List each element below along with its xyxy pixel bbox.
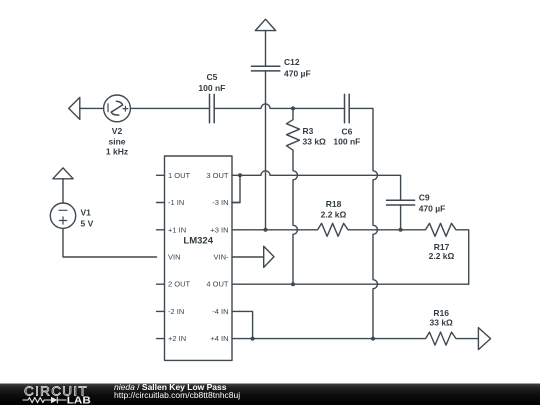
svg-text:C6: C6: [341, 126, 352, 136]
wire C9 bottom to +3IN row: [400, 205, 402, 230]
svg-text:R18: R18: [326, 199, 342, 209]
wire flag to V2: [80, 107, 104, 109]
logo diode triangle: [51, 397, 57, 404]
flag F4 (right, VIN-): [264, 246, 274, 267]
node dot R3/4OUT: [291, 282, 295, 286]
flag F5 (right, output): [478, 328, 490, 350]
node dot C6line/+4IN: [371, 337, 375, 341]
svg-text:100 nF: 100 nF: [198, 83, 225, 93]
wire +4IN row with R16: [240, 332, 478, 345]
svg-text:+1 IN: +1 IN: [168, 225, 186, 234]
resistor R17: [401, 223, 469, 284]
svg-text:3 OUT: 3 OUT: [206, 171, 229, 180]
wire C12 down to +3IN row dot: [265, 71, 267, 230]
svg-text:4 OUT: 4 OUT: [206, 280, 229, 289]
svg-text:V1: V1: [81, 207, 92, 217]
svg-text:-2 IN: -2 IN: [168, 307, 184, 316]
capacitor C5: [210, 94, 215, 123]
svg-text:http://circuitlab.com/cb8tt8tn: http://circuitlab.com/cb8tt8tnhc8uj: [114, 390, 240, 400]
flag F1 (up, top of C12): [255, 19, 275, 30]
svg-text:-3 IN: -3 IN: [212, 198, 228, 207]
node dot rail/R3 top: [291, 106, 295, 110]
svg-text:V2: V2: [112, 126, 123, 136]
source V2: [104, 95, 131, 122]
svg-text:2.2 kΩ: 2.2 kΩ: [321, 210, 347, 220]
IC left pin stubs: [157, 175, 165, 338]
capacitor C9: [387, 200, 415, 205]
wire V2 to C5: [130, 107, 209, 109]
svg-text:100 nF: 100 nF: [333, 137, 360, 147]
node dot -4IN/+4IN: [251, 337, 255, 341]
footer bar: [0, 384, 540, 405]
svg-text:+4 IN: +4 IN: [210, 334, 228, 343]
svg-text:LAB: LAB: [67, 394, 91, 405]
wire -4IN loop to +4IN: [240, 311, 253, 338]
wire flag to V1: [62, 179, 64, 203]
svg-text:C5: C5: [206, 72, 217, 82]
node dot 3OUT: [238, 173, 242, 177]
svg-text:33 kΩ: 33 kΩ: [430, 317, 454, 327]
svg-text:LM324: LM324: [183, 236, 213, 247]
svg-text:C9: C9: [419, 193, 430, 203]
svg-text:-1 IN: -1 IN: [168, 198, 184, 207]
logo squiggle resistor+diode: [23, 397, 67, 403]
wire 4OUT row: [240, 283, 469, 285]
svg-text:470 µF: 470 µF: [419, 203, 446, 213]
svg-text:R3: R3: [303, 126, 314, 136]
capacitor C12: [251, 66, 279, 71]
flag F3 (up, top of V1): [53, 168, 73, 179]
node dot C12/+3IN: [264, 228, 268, 232]
wire +3IN row with R18: [240, 223, 401, 236]
svg-text:33 kΩ: 33 kΩ: [303, 136, 327, 146]
IC right pin stubs: [232, 175, 240, 338]
svg-text:+2 IN: +2 IN: [168, 334, 186, 343]
svg-text:VIN-: VIN-: [214, 253, 230, 262]
wire C5 to C6 with hop over x=265.5: [214, 104, 344, 108]
source V1: [50, 203, 75, 228]
wire C6 right then down to +4IN row, hops over 3 rows: [349, 108, 377, 338]
wire feedback 3OUT to -3IN: [232, 175, 240, 202]
svg-text:VIN: VIN: [168, 253, 181, 262]
node dot C9/+3IN: [399, 228, 403, 232]
wire V1 to VIN pin: [63, 228, 157, 257]
svg-text:1 OUT: 1 OUT: [168, 171, 191, 180]
svg-text:C12: C12: [284, 57, 300, 67]
IC U1 LM324 body: [165, 156, 233, 360]
svg-text:2.2 kΩ: 2.2 kΩ: [429, 251, 455, 261]
svg-text:1 kHz: 1 kHz: [106, 146, 128, 156]
svg-text:-4 IN: -4 IN: [212, 307, 228, 316]
svg-text:2 OUT: 2 OUT: [168, 280, 191, 289]
wire VIN- to buffer flag: [240, 256, 264, 258]
svg-text:sine: sine: [108, 136, 125, 146]
capacitor C6: [345, 94, 350, 123]
svg-text:+3 IN: +3 IN: [210, 225, 228, 234]
resistor R3: [287, 108, 300, 284]
svg-text:470 µF: 470 µF: [284, 69, 311, 79]
svg-text:5 V: 5 V: [81, 218, 94, 228]
wire flag to C12: [265, 31, 267, 67]
flag F2 (left, input): [69, 97, 80, 119]
wire 3OUT row with hop over x=265.5, to C9 top: [240, 171, 401, 201]
